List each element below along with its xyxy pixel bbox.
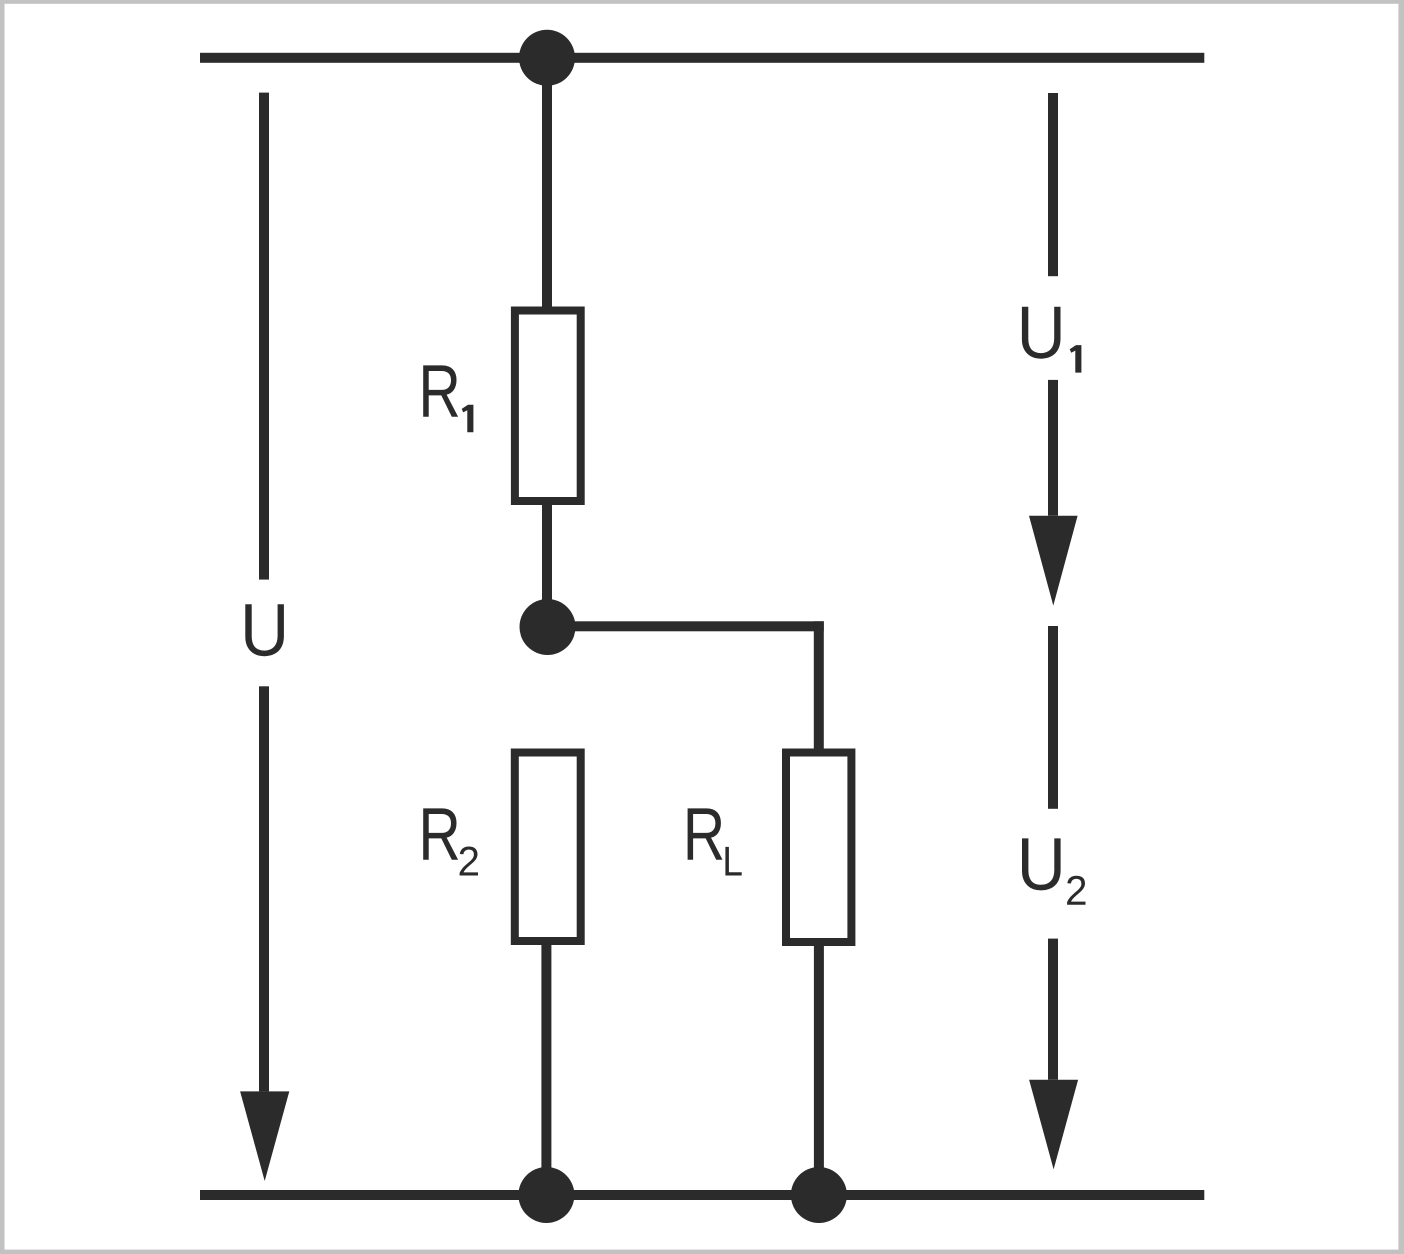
label RL: [688, 808, 742, 875]
label U2: [1022, 838, 1086, 904]
resistor R1: [515, 311, 581, 502]
resistor RL: [786, 753, 851, 943]
wire from top node down to R1: [542, 58, 552, 309]
arrow U shaft lower segment: [259, 686, 269, 1091]
arrow U2 head: [1029, 1080, 1078, 1170]
arrow U1 shaft lower segment: [1048, 380, 1058, 516]
arrow U2 shaft upper segment: [1048, 626, 1058, 809]
arrow U1 head: [1029, 516, 1078, 606]
node junction dot top: [519, 30, 575, 86]
label U1: [1022, 307, 1082, 373]
node junction dot middle: [520, 599, 576, 655]
wire from R2 down to bottom rail: [541, 941, 551, 1195]
label U: [245, 604, 284, 656]
label R1: [423, 365, 473, 432]
arrow U2 shaft lower segment: [1048, 939, 1058, 1080]
wire horizontal from middle node to RL branch: [547, 621, 824, 631]
wire vertical down to RL: [814, 621, 824, 748]
wire top rail: [200, 53, 1204, 63]
arrow U head: [240, 1091, 289, 1181]
resistor R2: [515, 753, 581, 942]
arrow U shaft upper segment: [259, 93, 269, 580]
node junction dot bottom left: [518, 1167, 574, 1223]
node junction dot bottom right: [791, 1167, 847, 1223]
wire bottom rail: [200, 1190, 1204, 1200]
label R2: [423, 808, 478, 875]
wire from RL down to bottom rail: [814, 942, 824, 1195]
arrow U1 shaft upper segment: [1048, 93, 1058, 276]
wire from R1 down to middle node: [542, 505, 552, 627]
